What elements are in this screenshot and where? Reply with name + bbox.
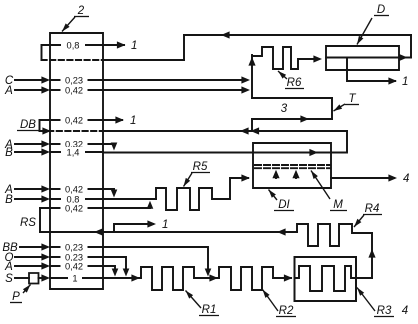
wire R3 output to riser [356,277,372,279]
wire top feedback line (y=35) from D output [184,31,411,38]
wire tap to node 1 (y=224) [114,220,156,232]
wire junction riser x=252 (y 119-131) [251,119,253,131]
node 1 (top left output) [131,40,137,52]
block P (pulse box) [29,273,39,284]
svg-text:R5: R5 [193,161,208,173]
value 0,23 (BB) [61,242,88,252]
svg-text:0,23: 0,23 [65,242,83,252]
wire notch vertical (x=41.5) [41,45,43,60]
svg-text:1: 1 [402,76,408,88]
label T with leader [334,93,360,111]
wire feedback row y=131 (from DI via x=347) [103,127,347,134]
svg-text:0,42: 0,42 [65,203,83,213]
value 0,8 [61,40,85,50]
label R5 with leader [184,161,211,187]
svg-text:R3: R3 [377,305,392,317]
svg-text:P: P [12,291,20,303]
value 0,23 (O) [61,252,88,262]
svg-text:D: D [377,4,385,16]
value 0,8 (y=199) [61,194,85,204]
wire row A to bus [103,86,250,93]
svg-text:1: 1 [162,219,168,231]
label P with leader [10,285,31,304]
value 0,42 (y=120) [61,115,88,125]
node 1 (tap output) [162,219,168,231]
value 0,42 (y=208) [61,203,88,213]
wire R6 output arrow into D [313,55,322,62]
wire dashed feedback row (y=60) [42,59,105,61]
wire D output (right, to top loop) [399,54,411,61]
input BB wire (y=247) [2,242,103,254]
wire R3 to R4 riser x=372 [368,233,375,278]
head arrow 2 inside DI [292,170,299,178]
svg-text:1,4: 1,4 [67,147,80,157]
value 1 (S row) [68,273,82,283]
input S wire (y=278) [5,273,29,285]
block 2 (pulse shaper unit) rectangle [50,33,103,289]
svg-text:0,23: 0,23 [65,75,83,85]
svg-text:B: B [5,147,13,159]
wire row 0,42 (y=208) from RS notch [40,207,150,209]
node 4 (DI output) [403,173,409,185]
value 0,42 (y=189) [61,184,88,194]
wire A row drop x=115 [103,266,118,277]
wire row 0,8 output to node 1 (y=45) [42,41,126,48]
resistor R3 inner meander [295,266,357,291]
value 0,23 (row C) [61,75,88,85]
head arrow 1 inside DI [272,170,279,178]
label 2 with leader [62,5,89,32]
block R3 rectangle [295,257,357,301]
svg-text:0,42: 0,42 [65,184,83,194]
resistor R2 meander [219,267,291,290]
value 1,4 [61,147,85,157]
svg-text:0,42: 0,42 [65,115,83,125]
svg-text:A: A [4,85,13,97]
wire R5 output arrow into DI [241,174,250,181]
resistor R1 meander [141,267,219,290]
input A wire (y=189) [4,184,103,196]
wire RS feedback line (y=232) [40,228,297,235]
wire row 1,4 to DI block [103,152,253,154]
wire row 0,42 (y=120) with left notch [40,116,125,123]
svg-text:R6: R6 [287,77,302,89]
wire S row to R1 [103,274,141,281]
input A wire (y=266) [4,261,103,273]
svg-text:0,42: 0,42 [65,261,83,271]
svg-text:2: 2 [77,5,85,17]
node 1 (output y=120) [130,115,136,127]
wire BB row to drop x=208 [103,247,211,277]
resistor R5 meander [156,178,248,210]
wire row 0,8 to R5 [103,198,156,200]
value 0,32 [61,139,88,149]
input B wire (y=199) [5,194,103,206]
wire O row drop x=126 [103,257,129,277]
wire R1-R2 junction arrow [209,274,218,281]
label R4 with leader [354,203,382,227]
label RS [20,217,36,229]
label DB [17,119,40,131]
value 0,42 (row A y=90) [61,85,88,95]
block DI rectangle [253,143,331,188]
svg-text:R2: R2 [279,305,294,317]
wire line 3 hairpin bottom (y=119) [252,115,332,122]
wire right drop x=411 to D output [410,35,412,58]
svg-text:1: 1 [72,273,77,283]
wire through D (y=57.5) [326,57,399,59]
svg-text:T: T [348,93,356,105]
input A wire (y=144) [4,139,103,151]
svg-text:DI: DI [278,199,290,211]
wire S continues into block 2 [39,274,104,281]
wire row A(189) merge into row 0,8 [103,189,117,198]
RS bracket [39,208,41,232]
label DI with leader [269,190,295,212]
label R3 with leader [357,288,394,318]
svg-text:4: 4 [402,305,408,317]
label R1 with leader [186,291,220,317]
resistor R6 meander [252,47,317,69]
svg-text:1: 1 [131,40,137,52]
input O wire (y=257) [5,252,103,264]
svg-text:DB: DB [20,119,36,131]
svg-text:A: A [4,261,13,273]
svg-text:RS: RS [20,217,36,229]
node 1 (D tap output) [402,76,408,88]
block D rectangle [326,46,399,70]
wire 1,4 through DI with arrow [253,149,331,156]
svg-text:R1: R1 [202,304,217,316]
label D with leader [357,4,389,45]
wire solid feedback segment (y=60) to riser [104,59,184,61]
wire row 0,42(208) merge up into row 0,8 [147,201,154,209]
svg-text:R4: R4 [365,203,380,215]
input B wire (y=152) [5,147,103,159]
label 3 [281,103,288,115]
svg-text:S: S [5,273,13,285]
figure number 4 [402,305,408,317]
input C wire [5,75,103,87]
wire row C to bus [103,76,250,83]
svg-text:1: 1 [130,115,136,127]
wire riser x=184 [183,35,185,60]
wire line 3 hairpin right (x=332) [331,98,333,119]
wire row 0,32 merge into row 1,4 [103,143,117,151]
svg-text:0,42: 0,42 [65,85,83,95]
svg-text:B: B [5,194,13,206]
wire R2 output arrow into R3 [284,274,293,281]
label M with leader [311,171,347,212]
input A wire (y=90) [4,85,103,97]
resistor R4 meander [297,224,372,246]
value 0,42 (A bottom) [61,261,88,271]
label R6 with leader [278,71,304,89]
wire bus x=252 (to R6 and line 3) [248,55,255,98]
wire DI right feedback riser x=347 [331,131,347,153]
svg-text:M: M [333,199,343,211]
magnetic tape M dashed lines [255,165,330,168]
wire DI output row y=178 to node 4 [331,174,397,181]
svg-text:0,8: 0,8 [67,40,80,50]
wire notch vertical x=39.5 (DB) [39,120,41,131]
input DB dashed wire [40,127,104,134]
svg-text:4: 4 [403,173,409,185]
wire D tap output to node 1 [347,58,397,85]
label R2 with leader [263,290,297,318]
wire line 3 hairpin top (y=98) [252,97,332,99]
svg-text:3: 3 [281,103,288,115]
